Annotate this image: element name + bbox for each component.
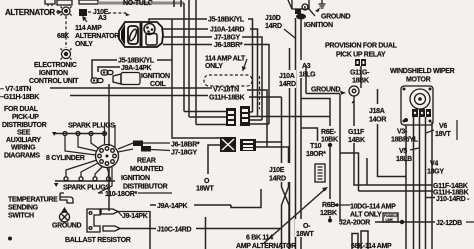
svg-text:14RD: 14RD [269, 176, 286, 183]
svg-text:MOTOR: MOTOR [406, 77, 431, 84]
SPARK PLUGS bottom [54, 183, 58, 187]
junction dot R6B/J2A [328, 219, 332, 223]
svg-text:SWITCH: SWITCH [8, 213, 34, 220]
J5 wire up to top line [157, 59, 172, 61]
svg-text:R6B: R6B [322, 202, 335, 209]
svg-text:114 AMP: 114 AMP [75, 25, 102, 32]
distributor bottom wire [98, 167, 112, 193]
svg-text:V3-: V3- [397, 129, 408, 136]
wire to J10A label [163, 28, 208, 30]
svg-text:IGNITION: IGNITION [39, 70, 68, 77]
svg-text:–G11H-18BK: –G11H-18BK [0, 94, 39, 101]
R6B 12BK label [319, 199, 339, 217]
svg-text:CONTROL UNIT: CONTROL UNIT [29, 78, 79, 85]
svg-text:18WT: 18WT [296, 231, 314, 238]
V3 label with dot [404, 118, 408, 122]
wire stub x174 [173, 0, 175, 7]
svg-text:ALT ONLY: ALT ONLY [350, 212, 382, 219]
arrow into dashed oval [243, 59, 247, 70]
svg-text:SPARK PLUGS: SPARK PLUGS [68, 123, 115, 130]
svg-text:REAR: REAR [137, 158, 156, 165]
svg-text:PROVISION FOR DUAL: PROVISION FOR DUAL [325, 43, 398, 50]
svg-text:IGNITION: IGNITION [304, 22, 333, 29]
svg-text:J9-14PK: J9-14PK [122, 213, 148, 220]
top plug wire row [54, 133, 106, 135]
svg-text:IGNITION: IGNITION [141, 73, 170, 80]
wire G11H-18BK right extension [249, 96, 282, 98]
svg-text:J6-18BR*: J6-18BR* [214, 42, 243, 49]
wiper motor [401, 86, 433, 125]
wire J2A to fusible link [375, 221, 400, 223]
J10A 14RD label mid [278, 70, 296, 88]
svg-text:J10E: J10E [269, 167, 285, 174]
V7/G11H long wires [0, 87, 212, 89]
bullet connectors at coil [91, 70, 113, 83]
J18A 14OR label [378, 89, 407, 177]
J9A-14PK wire and label [150, 204, 156, 206]
alternator stud symbol top [61, 7, 72, 16]
svg-text:ELECTRONIC: ELECTRONIC [34, 62, 77, 69]
ignition coil [113, 73, 140, 85]
svg-text:18VT: 18VT [435, 131, 452, 138]
wires into blocks [184, 111, 226, 113]
bullet connector lower [103, 226, 120, 231]
wire G11G down [360, 66, 362, 88]
svg-text:O: O [204, 178, 210, 185]
wires from labels turning down [248, 19, 253, 112]
svg-text:J7-18GY: J7-18GY [171, 150, 198, 157]
svg-text:ALTERNATOR: ALTERNATOR [75, 33, 119, 40]
svg-text:J10D: J10D [265, 15, 281, 22]
wire J2-12DB [402, 221, 435, 223]
coil wire down [108, 84, 110, 146]
svg-text:18WT: 18WT [196, 186, 214, 193]
svg-text:110-18OR*: 110-18OR* [105, 191, 138, 198]
svg-text:J10C-14RD: J10C-14RD [157, 227, 192, 234]
A3 18LG label [298, 60, 317, 79]
wire stub J10-14RD [426, 197, 435, 199]
harness line continues [150, 2, 184, 5]
svg-text:10DG-114 AMP: 10DG-114 AMP [350, 204, 396, 211]
wire G11F-14BK long [354, 143, 432, 185]
svg-text:J5-18BK/YL: J5-18BK/YL [208, 17, 245, 24]
thick harness line top [98, 2, 150, 5]
ignition switch assembly top center [288, 0, 315, 20]
svg-text:ALTERNATOR: ALTERNATOR [5, 8, 55, 17]
top cut-off connector stubs [45, 0, 98, 6]
wires from wiper motor down [405, 125, 407, 249]
svg-text:14RD: 14RD [279, 81, 296, 88]
svg-text:G11F: G11F [348, 129, 365, 136]
lower block wires [208, 145, 220, 174]
ECU bracket wires to J5/J9A [92, 60, 117, 78]
second ground branch [301, 99, 330, 128]
svg-text:18OR*: 18OR* [306, 151, 326, 158]
wire J2 to right edge [466, 221, 474, 223]
dashed wire 68K [65, 16, 67, 48]
svg-text:ONLY: ONLY [75, 41, 93, 48]
svg-text:J2A-20OR: J2A-20OR [339, 220, 370, 227]
svg-text:68K-114 AMP: 68K-114 AMP [351, 243, 392, 249]
wire from lower block right b [256, 147, 289, 187]
dashed phantom alternator [204, 75, 252, 86]
alternator stud symbol bottom [61, 49, 72, 60]
svg-text:G11G-: G11G- [350, 70, 370, 77]
svg-text:18GY: 18GY [427, 169, 444, 176]
svg-text:– V7-18TN: – V7-18TN [0, 86, 31, 93]
svg-text:V6: V6 [439, 123, 447, 130]
svg-text:J18A: J18A [369, 108, 385, 115]
svg-text:R6E-: R6E- [321, 129, 337, 136]
wire jog to crossing [231, 189, 261, 208]
svg-text:MOUNTED: MOUNTED [130, 166, 164, 173]
svg-text:AMP ALTERNATOR: AMP ALTERNATOR [236, 243, 296, 249]
svg-text:O-: O- [303, 223, 311, 230]
svg-text:DISTRIBUTOR: DISTRIBUTOR [2, 122, 47, 129]
svg-text:14RD: 14RD [265, 23, 282, 30]
svg-text:V7-18TN: V7-18TN [213, 87, 239, 94]
ground symbol top [315, 0, 326, 12]
X crossing [282, 187, 290, 249]
svg-text:J10A: J10A [279, 73, 295, 80]
wire stub to G11F line [366, 158, 368, 185]
O- 18WT label lower [295, 219, 319, 238]
G11G connector [355, 59, 366, 66]
arrow to alternator stud [56, 11, 61, 14]
J10E 14RD label [267, 163, 291, 183]
svg-text:J2-12DB: J2-12DB [436, 220, 462, 227]
wire to J6 label [163, 44, 212, 46]
wire from lower block right a [256, 141, 282, 143]
svg-text:8 CYLINDER: 8 CYLINDER [46, 155, 85, 162]
svg-text:PICK UP RELAY: PICK UP RELAY [336, 52, 386, 59]
svg-text:BALLAST RESISTOR: BALLAST RESISTOR [65, 237, 131, 244]
svg-text:14OR: 14OR [369, 117, 386, 124]
svg-text:WIRING: WIRING [11, 145, 36, 152]
wire G11H down to crossing [281, 97, 283, 187]
wire vertical x199 [195, 0, 197, 125]
svg-text:LINK: LINK [386, 218, 394, 222]
svg-text:GROUND: GROUND [321, 14, 351, 21]
eyelet terminal [349, 86, 359, 103]
svg-text:J9A-14PK: J9A-14PK [157, 203, 188, 210]
wire vertical x193 [188, 0, 190, 117]
black square connector J10E [79, 9, 87, 16]
big diagonal pointer [264, 190, 324, 243]
svg-text:COIL: COIL [150, 81, 167, 88]
svg-text:PICK-UP: PICK-UP [12, 114, 39, 121]
svg-text:DISTRIBUTOR: DISTRIBUTOR [123, 184, 168, 191]
svg-text:J10-14RD -: J10-14RD - [436, 196, 470, 203]
fusible link on J2 wire [383, 213, 398, 222]
pointer arrow to R6B wire [337, 204, 350, 206]
ignition switch wires down [295, 18, 297, 249]
ground symbol lower left [60, 207, 70, 222]
ground wire to eyelet [305, 65, 307, 94]
small bracket right of motor [456, 120, 458, 140]
scan mark [8, 237, 12, 241]
rises from bottom row to distributor [66, 160, 97, 177]
svg-text:18LB: 18LB [396, 156, 412, 163]
verticals bottom left [149, 211, 151, 249]
svg-text:GROUND: GROUND [52, 223, 82, 230]
wire G11H-18BK long [359, 190, 434, 192]
drops from top row to distributor [65, 136, 96, 156]
connector blocks center [226, 106, 250, 126]
svg-text:NO-TULO: NO-TULO [123, 0, 154, 7]
110-18OR* label [98, 192, 103, 194]
svg-text:SENDING: SENDING [8, 205, 39, 212]
svg-text:V4: V4 [430, 161, 438, 168]
wire from connector top to J5 label [149, 19, 207, 22]
svg-text:6 BK 114: 6 BK 114 [246, 235, 273, 242]
bottom plug wire row [55, 180, 115, 182]
label J10E A3 with dashes [88, 11, 92, 13]
ballast resistor [87, 209, 100, 232]
bullet connector J9-14PK [101, 209, 118, 214]
svg-text:FOR DUAL: FOR DUAL [4, 106, 39, 113]
junction dot J2 [400, 220, 404, 224]
alternator connector [119, 22, 163, 47]
svg-text:IGNITION: IGNITION [121, 175, 150, 182]
svg-text:J10A-14RD: J10A-14RD [210, 27, 245, 34]
svg-text:J6-18BR*: J6-18BR* [171, 142, 200, 149]
svg-text:V5: V5 [399, 148, 407, 155]
arrow from 114AMP text to square [83, 17, 87, 22]
svg-text:A3: A3 [98, 15, 107, 22]
svg-text:TEMPERATURE: TEMPERATURE [8, 197, 58, 204]
wire corner to G11H line [340, 153, 359, 191]
twisted pair from distributor to connectors [118, 143, 133, 152]
wire J10A down [289, 48, 291, 249]
svg-text:GROUND: GROUND [311, 87, 341, 94]
svg-text:WINDSHIELD WIPER: WINDSHIELD WIPER [390, 68, 455, 75]
fusible link rect mid [315, 164, 325, 182]
wire to J7 label [163, 36, 212, 38]
wire stub x181 [180, 0, 182, 7]
R6E-10BK label [320, 126, 339, 144]
svg-text:SEE: SEE [17, 130, 31, 137]
G11F 14BK label mid [353, 101, 355, 127]
svg-text:J7-18GY: J7-18GY [214, 35, 241, 42]
svg-text:18LG: 18LG [299, 72, 316, 79]
temperature sender symbol [60, 193, 73, 203]
svg-text:G11H-18BK: G11H-18BK [209, 95, 245, 102]
svg-text:10BK: 10BK [321, 137, 338, 144]
svg-text:J9A-14PK: J9A-14PK [121, 65, 152, 72]
wire from harness corner down [183, 3, 185, 112]
svg-text:DIAGRAMS: DIAGRAMS [4, 153, 40, 160]
svg-text:68K: 68K [57, 33, 69, 40]
68K-114 AMP bottom [352, 234, 358, 249]
distributor cap [96, 145, 119, 168]
vertical x340 [339, 94, 341, 222]
svg-text:14BK: 14BK [348, 137, 365, 144]
svg-text:J5-18BK/YL: J5-18BK/YL [118, 58, 155, 65]
svg-text:114 AMP ALT: 114 AMP ALT [205, 56, 246, 63]
T10 corner wire [301, 128, 318, 141]
pointer from J10D to wire [284, 29, 295, 38]
svg-text:AUXILIARY: AUXILIARY [6, 137, 41, 144]
svg-text:18BR/YL: 18BR/YL [391, 137, 419, 144]
svg-text:ONLY: ONLY [205, 63, 223, 70]
svg-text:T10: T10 [310, 143, 322, 150]
wire V7-18TN right extension [247, 90, 267, 147]
svg-text:12BK: 12BK [320, 210, 337, 217]
